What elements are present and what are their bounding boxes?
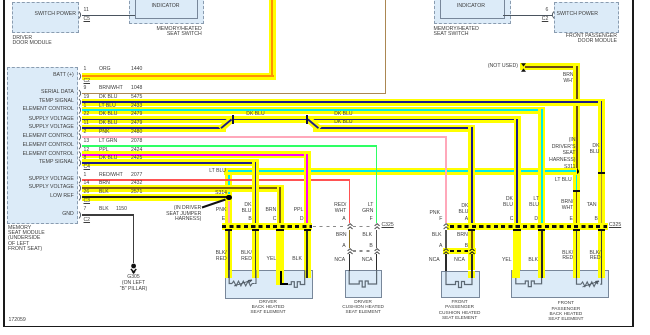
(NOT USED) label [488, 64, 518, 69]
colour-change tick on column E [573, 190, 580, 192]
pin F label (driver cushion) [370, 217, 373, 222]
splice S314 dot [226, 195, 232, 201]
wire BLK/RED stub into fp back box (E) [573, 270, 580, 278]
S314 pointer line [199, 196, 229, 210]
column D PPL core [306, 154, 308, 226]
column D LT BLU core [541, 109, 543, 226]
column C (driver back): BRN 2432 vertical highlight [277, 185, 284, 230]
column F BLK below 2nd connector (NCA) [445, 254, 446, 272]
pin A label (driver cushion) [342, 217, 345, 222]
front passenger cushion heated seat element box [441, 271, 480, 298]
wire BRN/WHT 1048 (pin 9 serial data) [82, 93, 387, 95]
pin 1 / ORG / 1440 labels [84, 67, 87, 72]
YEL label column C [267, 257, 277, 262]
DK BLU label column C [503, 196, 513, 209]
DK BLU labels at split (right of splice) [334, 112, 352, 117]
PPL label column D [294, 208, 304, 213]
switch power pin bracket (driver door module) [78, 11, 84, 19]
wire ORG 1440 core [82, 75, 274, 77]
2nd connector black dashes (front pass cushion) [450, 250, 469, 253]
pin B label (fp cushion 2nd) [465, 244, 468, 249]
S314 harness note [166, 206, 201, 223]
connector C325 black dashes (driver back) [222, 225, 312, 228]
memory/heated seat switch box (left, top cut off) [129, 0, 204, 24]
pin 12 / PPL / 2424 labels [84, 148, 90, 153]
diagram number 172059 [9, 318, 26, 323]
pin 11 / DK BLU / 2479 labels [84, 121, 89, 126]
pin B label (front pass back) [594, 217, 597, 222]
column E LT BLU core (to S314 dot) [228, 170, 230, 196]
wire LT BLU 2433 highlight (pin 1 element control) [82, 107, 545, 114]
column C BRN core [279, 187, 281, 226]
2nd connector yellow backing (front pass cushion) [443, 248, 476, 254]
pin 2 / PNK / 2480 labels [84, 130, 87, 135]
ELEMENT CONTROL label (pin 1) [23, 107, 74, 112]
driver door module box [12, 2, 79, 34]
wires entering driver cushion box [349, 270, 350, 271]
ELEMENT CONTROL label (pin 13) [23, 143, 74, 148]
connector C2 label [84, 79, 91, 84]
front passenger back element caption [548, 300, 583, 321]
column B DK BLU core [255, 162, 257, 226]
pin 7 / BLK / 1150 labels [84, 207, 87, 212]
NCA label driver cushion F [362, 258, 373, 263]
driver cushion element internals [345, 270, 380, 296]
connector C4 label [84, 165, 91, 170]
connector C3 label [84, 199, 91, 204]
memory seat module box [7, 67, 78, 224]
indicator box (left switch) [135, 0, 198, 19]
pin B label (driver cushion 2nd) [369, 244, 372, 249]
memory seat module caption [8, 226, 45, 253]
column E BLK/RED core below C325 [576, 230, 578, 272]
column E LT BLU core stub below S311 [576, 172, 578, 191]
pin D label (driver back) [300, 217, 304, 222]
pin 6 label [545, 8, 548, 13]
PNK label column E [216, 208, 226, 213]
clipped text above INDICATOR (right) [457, 0, 486, 2]
clipped text above INDICATOR (left) [151, 0, 180, 2]
BRN/WHT label column E [561, 199, 573, 211]
pin 14 / BRN / 2432 labels [84, 181, 90, 186]
BRN label driver cushion [336, 233, 347, 238]
BRN label column C [266, 208, 277, 213]
pin A label (fp cushion 2nd) [439, 244, 442, 249]
wire PNK 2480 (pin 2 element control) [82, 136, 447, 138]
wire BRN/WHT 1048 vertical [385, 0, 387, 94]
connector C325 black dashes (front passenger) [450, 225, 607, 228]
column A BLK core below 2nd connector (NCA) [471, 254, 473, 272]
GND label [62, 212, 74, 217]
2nd connector bowtie (fp cushion B) [469, 248, 475, 255]
wire: driver door module pin 11 to left indicator [82, 15, 135, 16]
ground G305 symbol [126, 259, 142, 275]
connector C325 label (right) [609, 223, 621, 228]
page right border [632, 0, 634, 327]
wire BLK 2571 highlight (pin 26 low ref) [82, 194, 233, 201]
colour-change tick on column B [598, 172, 605, 174]
inline connector bowtie (PNK at C325) [443, 223, 449, 230]
TEMP SIGNAL label [39, 99, 74, 104]
column C YEL below C325 (wide yellow) [513, 230, 521, 272]
wire ORG 1440 vertical highlight [269, 0, 276, 80]
pin 19 / DK BLU / 5475 labels [84, 95, 90, 100]
DK BLU label column B [590, 143, 600, 156]
wire LT GRN 2078 (pin 13 element control) [82, 145, 378, 147]
not used terminal symbol [520, 63, 527, 72]
pin E label (driver back) [222, 217, 225, 222]
DK BLU label column B [242, 203, 252, 214]
column C YEL below C325 (wide yellow) [276, 230, 284, 286]
pin B label (driver back) [248, 217, 251, 222]
column D BLK core below C325 [306, 230, 308, 272]
column F BLK below C325 [376, 230, 377, 248]
LT BLU label (jumper) [209, 169, 226, 174]
connector ticks below C325 on highlighted wires [225, 229, 232, 231]
front passenger cushion element caption [439, 299, 481, 320]
LT GRN label driver cushion [362, 203, 373, 214]
SUPPLY VOLTAGE label (pin 14) [29, 185, 74, 190]
column D (driver back): PPL 2424 vertical highlight [304, 152, 311, 271]
NCA label driver cushion A [334, 258, 345, 263]
driver back element internals (zigzag + square wave) [225, 270, 312, 297]
LT BLU stub label [555, 178, 572, 183]
splice tick (left merge) [232, 115, 234, 124]
connector C5 label [84, 17, 91, 22]
wire BLK/RED stub into driver back box (E) [225, 270, 232, 278]
wire BLK stub into fp back box (D) [538, 270, 545, 278]
YEL black L inside driver back box [280, 271, 283, 286]
memory/heated seat switch caption (right) [434, 27, 479, 37]
NCA label column F [429, 258, 440, 263]
wire BRN 2432 highlight (pin 14 supply voltage) [82, 185, 284, 192]
pin E label (front pass back) [569, 217, 572, 222]
NCA label column A [454, 258, 465, 263]
INDICATOR label (right) [457, 4, 485, 9]
wire BRN/WHT (NOT USED) core [525, 66, 578, 68]
memory/heated seat switch box (right, top cut off) [434, 0, 511, 24]
column F (front pass cushion): PNK 2480 vertical [445, 136, 447, 223]
BLK label column D [292, 257, 302, 262]
column F BLK below 2nd connector (NCA) [376, 254, 377, 272]
pin A label (driver cushion 2nd) [342, 244, 345, 249]
column A BLK below 2nd connector (NCA) [349, 254, 350, 272]
column F BLK below C325 [445, 230, 446, 248]
page bottom border [3, 326, 634, 328]
wire BRN 2432 core [82, 187, 282, 189]
memory/heated seat switch caption (left) [156, 27, 201, 37]
column A DK BLU core [471, 127, 473, 226]
BRN/WHT vertical label (not used drop) [563, 72, 575, 84]
G305 caption [120, 275, 147, 292]
SUPPLY VOLTAGE label (pin 1) [29, 177, 74, 182]
wire LT BLU jumper horizontal core [228, 170, 577, 172]
wires entering fp cushion box (right highlighted stub) [468, 271, 475, 278]
wire DK BLU 2479 pin 11 core left segment [82, 127, 223, 129]
column D (front pass back): LT BLU 2433 vertical highlight [538, 107, 545, 271]
wire DK BLU 2425 highlight (pin 8 temp signal) [82, 159, 259, 166]
SUPPLY VOLTAGE label (pin 11) [29, 125, 74, 130]
BLK label driver cushion [362, 233, 372, 238]
pin 11 label [84, 8, 89, 13]
wire ORG 1440 vertical core [271, 0, 273, 77]
BLK label column F [432, 233, 442, 238]
switch power pin bracket (front passenger door module) [549, 11, 555, 19]
pin D label (front pass back) [534, 217, 538, 222]
column F (driver cushion): LT GRN 2078 vertical [376, 145, 378, 223]
pin 1 / RED/WHT / 2077 labels [84, 173, 87, 178]
wire YEL stub into driver back box (C) [276, 270, 284, 285]
indicator box (right switch) [440, 0, 505, 19]
column A (driver cushion): RED/WHT 2077 vertical [349, 179, 351, 223]
column E BRN/WHT core above S311 [576, 66, 578, 171]
connector C2 label (gnd) [84, 218, 91, 223]
pin A label (front pass cushion) [465, 217, 468, 222]
column B BLK/RED core below C325 [255, 230, 257, 272]
splice tick (right split) [306, 115, 308, 124]
pin C label (front pass back) [510, 217, 514, 222]
wire BLK/RED stub into driver back box (B) [252, 270, 259, 278]
S311 harness note [549, 137, 575, 170]
wire BLK/RED stub into fp back box (B) [598, 270, 605, 278]
below C325 labels: YEL / BLK / BLK-RED / BLK-RED (front pass back) [502, 258, 512, 263]
INDICATOR label (left) [151, 4, 179, 9]
front passenger door module caption [566, 34, 617, 44]
front passenger door module SWITCH POWER label [557, 12, 599, 17]
connector C325 yellow backing (driver back) [222, 223, 312, 230]
column C (front pass back): DK BLU 2479 vertical highlight [514, 116, 521, 270]
wire: right indicator to front passenger door module pin 6 [503, 15, 552, 16]
pin 26 / BLK / 2571 labels [84, 190, 90, 195]
pin 13 / LT GRN / 2078 labels [84, 139, 90, 144]
connector C325 thin dashes (between cushion pins) [353, 226, 373, 227]
connector C325 label (left) [382, 223, 394, 228]
pin 1 / LT BLU / 2433 labels [84, 104, 87, 109]
column B TAN core below tick [601, 174, 603, 226]
wire RED/WHT 2077 (pin 1 supply voltage) [82, 179, 351, 181]
column E PNK core below S314 [228, 200, 230, 226]
wire PPL 2424 highlight (pin 12 element control) [82, 151, 311, 158]
LT BLU label column D [529, 196, 539, 209]
pin C label (driver back) [273, 217, 277, 222]
wire DK BLU 5475 highlight (pin 19 temp signal) [82, 99, 605, 106]
wire BLK 2571 core [82, 196, 229, 198]
2nd connector dashes (driver cushion) [353, 250, 373, 251]
column A BRN core below C325 [471, 230, 473, 249]
DK BLU label column A [458, 204, 468, 216]
wire DK BLU 2479 pin 22 highlight (supply voltage) [82, 116, 521, 123]
connector C2 label (front passenger door module) [542, 17, 549, 22]
page left border [3, 0, 5, 327]
wire DK BLU 2479 pin 22 core [82, 119, 519, 121]
front passenger door module box [554, 2, 619, 34]
wire DK BLU 2479 pin 11 highlight right segment [313, 125, 475, 132]
front passenger cushion element internals [441, 271, 478, 296]
column E BRN/WHT core below colour-change tick [576, 191, 578, 226]
ELEMENT CONTROL label (pin 12) [23, 152, 74, 157]
column B DK BLU core (above tick) [601, 101, 603, 173]
column A BRN below C325 [349, 230, 350, 248]
2nd connector bowtie (fp cushion A) [443, 248, 449, 255]
driver door module caption [13, 36, 52, 46]
module pin brackets [78, 60, 84, 225]
S314 label [215, 191, 227, 196]
BRN label column A [457, 233, 468, 238]
column B BLK/RED core below C325 [601, 230, 603, 272]
wire BLK stub into driver back box (D) [304, 270, 311, 278]
front passenger back element internals [511, 270, 607, 297]
column B (front pass back): DK BLU 5475 vertical highlight [598, 99, 605, 270]
pin 8 / DK BLU / 2425 labels [84, 156, 87, 161]
TAN label column B [587, 203, 597, 208]
wire DK BLU 2479 pin 11 core right segment [316, 127, 474, 129]
wire LT BLU jumper horizontal highlight (S314 to S311) [224, 168, 577, 175]
wire ORG 1440 highlight (pin 1 BATT+) [82, 73, 276, 80]
TEMP SIGNAL label (pin 8) [39, 160, 74, 165]
splice S311 dot [574, 169, 580, 175]
wire YEL stub into fp back box (C) [512, 270, 520, 278]
pin F label (front pass cushion) [439, 217, 442, 222]
pin 22 / DK BLU / 2479 labels [84, 112, 90, 117]
driver cushion heated seat element box [345, 270, 382, 298]
column E (driver back): LT BLU drop to S314 highlight [225, 168, 232, 270]
wire DK BLU 2479 pin 11 highlight left segment [82, 125, 226, 132]
2nd connector bowtie (driver cushion B) [374, 248, 380, 255]
wire BLK 1150 vertical to G305 [133, 214, 134, 263]
column C DK BLU core [516, 119, 518, 227]
RED/WHT label driver cushion [334, 203, 346, 214]
wire DK BLU 2425 core [82, 162, 257, 164]
driver back heated seat element box [225, 270, 314, 299]
DK BLU pin11 merge diagonal (left) [214, 110, 238, 135]
connector C325 yellow backing (front passenger) [447, 223, 608, 230]
column A (front pass cushion): DK BLU 2479 pin11 vertical highlight [468, 125, 475, 271]
DK BLU pin11 split diagonal (right) [302, 110, 326, 135]
column E (front pass back): vertical highlight from NOT USED to element box [573, 63, 580, 270]
connector C325 thin dashes (middle) [313, 226, 345, 227]
BATT (+) label [53, 73, 74, 78]
column D BLK core below C325 [541, 230, 543, 272]
wire BLK 1150 (pin 7 GND) [82, 214, 135, 215]
SUPPLY VOLTAGE label (pin 22) [29, 117, 74, 122]
BLK/RED label column E [216, 251, 227, 263]
front passenger back heated seat element box [511, 270, 609, 299]
PNK label column F [430, 211, 440, 216]
BLK/RED label column B [241, 251, 252, 263]
wire LT BLU 2433 core [82, 109, 543, 111]
pin 9 / BRN/WHT / 1048 labels [84, 86, 87, 91]
2nd connector bowtie (driver cushion A) [347, 248, 353, 255]
wire BRN/WHT (NOT USED) horizontal highlight [520, 63, 580, 70]
driver back element caption [250, 300, 285, 314]
ELEMENT CONTROL label (pin 2) [23, 134, 74, 139]
wire DK BLU 5475 core [82, 101, 603, 103]
inline connector bowtie (RED/WHT at C325) [347, 223, 353, 230]
driver cushion element caption [342, 300, 384, 314]
DK BLU label on merged segment [246, 112, 264, 117]
SERIAL DATA label [41, 90, 74, 95]
wire PPL 2424 core [82, 154, 309, 156]
column E BLK/RED core below C325 [228, 230, 230, 272]
LOW REF label [50, 194, 74, 199]
column B (driver back): DK BLU 2425 vertical highlight [252, 160, 259, 271]
driver door module SWITCH POWER label [35, 12, 77, 17]
inline connector bowtie (LT GRN at C325) [374, 223, 380, 230]
